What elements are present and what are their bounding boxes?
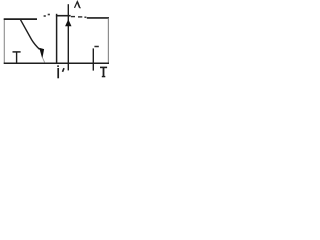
flow path arrow A to T (left position) shaft (20, 19, 39, 49)
right box top edge solid segment (56, 15, 71, 17)
blocked port T (right position) crossbar (94, 46, 98, 48)
valve body right edge (107, 18, 109, 63)
valve position divider (56, 14, 58, 64)
port label T (100, 66, 107, 68)
blocked port T (right position) stem and port stub (92, 48, 94, 70)
port line A / flow line P to A (right position) (67, 4, 69, 70)
valve body bottom edge (4, 62, 109, 64)
flow path arrow P to A (right position) arrowhead (65, 19, 71, 26)
valve body top edge right segment (87, 17, 109, 19)
top edge faded dots (44, 15, 46, 17)
right box top edge dashes (71, 16, 75, 18)
flow path arrow A to T (left position) arrowhead (39, 48, 44, 59)
blocked port P (left position) stem (16, 52, 18, 63)
blocked port P (left position) crossbar (13, 51, 21, 53)
port label P (degraded glyph) (57, 65, 59, 67)
valve body top edge left segment (4, 18, 37, 20)
port label A (75, 2, 81, 9)
valve body left box left edge (3, 19, 5, 64)
